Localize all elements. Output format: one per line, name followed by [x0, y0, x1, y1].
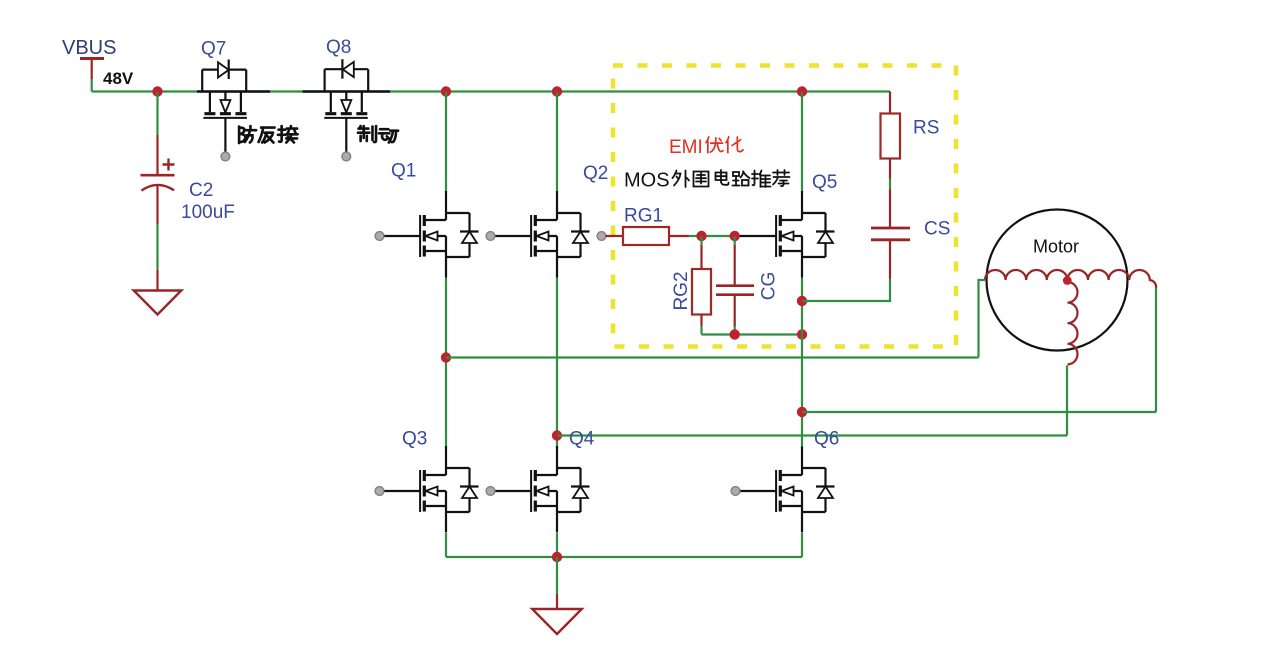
motor winding horizontal: [985, 270, 1156, 288]
wire Q1 gate: [380, 235, 420, 237]
label Q5: [812, 172, 837, 193]
ground symbol main: [532, 609, 582, 634]
resistor RS: [881, 92, 901, 179]
wire Q4 source: [556, 533, 558, 557]
node C2 tap junction: [152, 86, 162, 96]
svg-text:Q4: Q4: [569, 429, 595, 450]
pin Q2 gate: [486, 232, 495, 241]
label Q3: [402, 429, 427, 450]
svg-text:Q5: Q5: [812, 172, 837, 193]
label Q2: [583, 163, 608, 184]
transistor Q6: [776, 446, 834, 533]
resistor RG2: [692, 236, 711, 335]
motor circle: [987, 210, 1128, 351]
wire bottom ground rail: [446, 556, 802, 558]
label 制动: [358, 126, 398, 142]
wire RG1 to gate: [689, 235, 776, 237]
node CS return junction: [797, 296, 807, 306]
wire Q5 source down: [801, 278, 803, 447]
pin Q5 gate chain: [597, 232, 606, 241]
svg-text:CS: CS: [924, 219, 950, 240]
label Q6: [814, 429, 839, 450]
EMI optimization dashed box: [613, 66, 956, 347]
svg-text:Q8: Q8: [326, 37, 351, 58]
label CG: [759, 272, 780, 301]
transistor Q4: [531, 446, 589, 533]
wire motor terminal A: [979, 280, 986, 358]
net label VBUS: [62, 37, 116, 59]
label Q4: [569, 429, 595, 450]
label MOS外围电路推荐: [624, 170, 790, 192]
svg-text:Motor: Motor: [1033, 237, 1079, 257]
pin Q1 gate: [375, 232, 384, 241]
capacitor CS: [871, 228, 910, 279]
transistor Q7: [197, 60, 270, 153]
node RG2 tap junction: [696, 231, 706, 241]
wire motor terminal B: [1066, 366, 1068, 436]
wire Q1 source to phase A: [445, 278, 447, 447]
node phase C junction: [797, 407, 807, 417]
label Q8: [326, 37, 351, 58]
svg-text:RG2: RG2: [671, 271, 692, 310]
svg-text:VBUS: VBUS: [62, 37, 116, 59]
transistor Q3: [420, 446, 478, 533]
label EMI优化: [669, 137, 743, 158]
wire Q3 gate: [380, 490, 420, 492]
ground symbol C2: [134, 291, 182, 315]
node CG bottom junction: [730, 329, 740, 339]
svg-text:48V: 48V: [103, 69, 134, 88]
svg-text:Q2: Q2: [583, 163, 608, 184]
svg-text:RS: RS: [913, 118, 939, 139]
svg-text:Q3: Q3: [402, 429, 427, 450]
wire Q3 source: [445, 533, 447, 557]
wire VBUS stem: [91, 79, 93, 92]
label C2 100uF: [181, 180, 235, 223]
wire phase C horizontal: [802, 411, 1156, 413]
wire motor terminal C: [1155, 288, 1157, 412]
pin Q3 gate: [375, 487, 384, 496]
node CG tap junction: [730, 231, 740, 241]
capacitor C2: [141, 135, 175, 224]
svg-text:EMI: EMI: [669, 137, 703, 158]
value label 48V: [103, 69, 134, 88]
label RG1: [624, 206, 663, 227]
label Q1: [391, 161, 416, 182]
svg-text:CG: CG: [759, 272, 780, 301]
wire CS return: [802, 279, 890, 302]
transistor Q2: [531, 191, 589, 278]
wire top rail VBUS: [92, 90, 890, 92]
node Q2 drain junction: [552, 86, 562, 96]
wire Q4 gate: [491, 490, 531, 492]
svg-text:MOS: MOS: [624, 170, 670, 192]
node Q1 drain junction: [441, 86, 451, 96]
wire EMI bottom rail: [702, 333, 803, 335]
svg-text:Q1: Q1: [391, 161, 416, 182]
transistor Q5: [776, 191, 834, 278]
resistor RG1: [606, 227, 690, 245]
wire ground stem: [556, 557, 558, 609]
svg-text:100uF: 100uF: [181, 202, 235, 223]
wire Q1 drain: [445, 92, 447, 192]
node Q5 source rail junction: [797, 329, 807, 339]
label Motor: [1033, 237, 1079, 257]
wire phase A horizontal: [446, 356, 979, 358]
transistor Q8: [303, 59, 391, 152]
node phase A junction: [441, 352, 451, 362]
wire RS to CS: [889, 179, 891, 228]
motor winding vertical: [1068, 282, 1078, 364]
wire Q6 gate: [736, 490, 776, 492]
pin Q4 gate: [486, 487, 495, 496]
pin Q8 gate: [342, 152, 351, 161]
pin Q6 gate: [731, 487, 740, 496]
label 防反接: [239, 126, 298, 143]
wire Q5 drain: [801, 92, 803, 192]
transistor Q1: [420, 191, 478, 278]
wire Q2 source to Q4: [556, 278, 558, 449]
wire C2 branch: [156, 92, 158, 136]
svg-text:Q6: Q6: [814, 429, 839, 450]
svg-text:RG1: RG1: [624, 206, 663, 227]
label CS: [924, 219, 950, 240]
node ground rail junction: [552, 552, 562, 562]
svg-text:C2: C2: [189, 180, 213, 201]
wire Q2 drain: [556, 92, 558, 192]
wire phase B horizontal: [557, 434, 1067, 436]
node Q5 drain junction: [797, 86, 807, 96]
label RS: [913, 118, 939, 139]
node phase B junction: [552, 430, 562, 440]
wire Q2 gate: [491, 235, 531, 237]
capacitor CG: [716, 236, 754, 335]
node motor star junction: [1063, 276, 1072, 285]
wire C2 to ground: [156, 224, 158, 291]
svg-text:Q7: Q7: [201, 39, 226, 60]
pin Q7 gate: [221, 152, 230, 161]
wire Q6 source: [801, 533, 803, 557]
label Q7: [201, 39, 226, 60]
label RG2: [671, 271, 692, 310]
power port VBUS: [80, 59, 104, 80]
